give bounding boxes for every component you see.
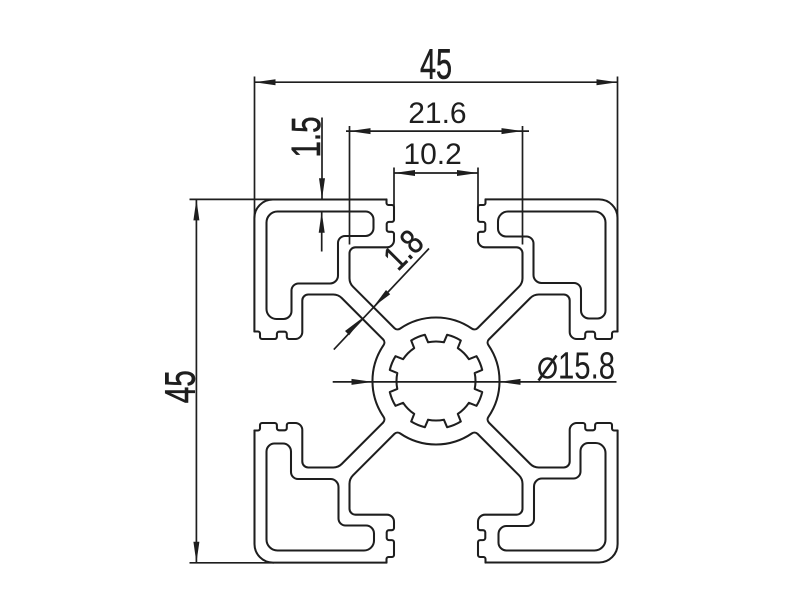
- dimension 10.2 (slot opening width): [394, 138, 478, 209]
- dimension 21.6 (slot chamber width): [346, 97, 529, 245]
- dimension 1.8 (web thickness): [334, 223, 431, 350]
- dimension 45 (top width): [255, 41, 618, 219]
- center bore with 8 inward teeth: [390, 335, 482, 427]
- svg-text:45: 45: [157, 370, 205, 403]
- outer corner runs with fillets: [486, 199, 618, 331]
- dimension 45 (left height): [157, 199, 275, 562]
- svg-text:45: 45: [420, 41, 452, 89]
- svg-text:10.2: 10.2: [403, 138, 461, 171]
- dimension diameter 15.8 (center bore boss): [333, 346, 617, 388]
- profile outline: T-slot excursions (N,E,S,W): [349, 199, 522, 329]
- corner cavity (hollow chamber) NW + rotations: [267, 212, 374, 320]
- dimension 1.5 (wall thickness): [283, 117, 329, 252]
- svg-text:15.8: 15.8: [558, 346, 615, 388]
- svg-text:1.5: 1.5: [283, 117, 329, 158]
- svg-text:21.6: 21.6: [408, 97, 466, 130]
